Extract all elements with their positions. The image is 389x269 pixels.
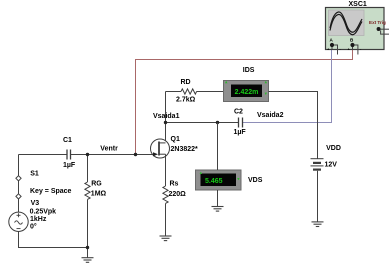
svg-text:S1: S1 (30, 171, 39, 178)
capacitor C1 (67, 150, 71, 160)
ammeter IDS (224, 81, 269, 102)
svg-text:5.465: 5.465 (205, 178, 223, 185)
svg-text:12V: 12V (325, 161, 338, 168)
svg-text:0°: 0° (30, 223, 37, 231)
svg-text:2.7kΩ: 2.7kΩ (176, 96, 196, 103)
svg-text:XSC1: XSC1 (349, 1, 367, 8)
voltmeter VDS (196, 170, 242, 190)
wire: Vsaida1 to VDS meter (217, 123, 219, 171)
svg-text:1MΩ: 1MΩ (91, 190, 107, 197)
svg-text:1µF: 1µF (63, 162, 76, 169)
ground (VDD) (312, 222, 324, 227)
resistor Rs (163, 186, 168, 203)
capacitor C2 (239, 118, 243, 128)
terminal B (348, 38, 363, 55)
terminal A (327, 38, 342, 55)
svg-text:VDS: VDS (248, 177, 263, 184)
wire: IDS to VDD (269, 92, 318, 159)
svg-text:2.422m: 2.422m (235, 89, 259, 96)
svg-text:C2: C2 (234, 109, 243, 116)
wire: source vertical (Q1 to Rs) (165, 154, 167, 236)
switch S1 (16, 176, 21, 199)
svg-text:Ventr: Ventr (100, 145, 118, 152)
junction: V3/RG bottom (86, 246, 89, 249)
oscilloscope XSC1 (326, 8, 385, 50)
junction: gate/red wire (134, 153, 137, 156)
svg-text:2N3822*: 2N3822* (171, 146, 199, 153)
wire blue: scope A to Vsaida2 (243, 49, 332, 123)
svg-text:RD: RD (181, 79, 191, 86)
svg-text:0.25Vpk: 0.25Vpk (30, 209, 57, 216)
wire red: scope B to gate net (136, 47, 353, 155)
terminal Ext Trig (377, 27, 389, 34)
resistor RG (85, 182, 90, 199)
svg-text:1µF: 1µF (234, 129, 247, 136)
svg-text:Vsaida1: Vsaida1 (153, 113, 180, 120)
svg-text:IDS: IDS (243, 67, 255, 74)
junction: Vsaida1/VDS meter (216, 121, 219, 124)
wire: left branch down through S1 and V3 (19, 155, 88, 248)
svg-text:Rs: Rs (170, 181, 179, 188)
svg-text:V3: V3 (31, 200, 40, 207)
svg-text:RG: RG (91, 180, 102, 187)
svg-text:Vsaida2: Vsaida2 (257, 112, 284, 119)
svg-text:Q1: Q1 (171, 136, 180, 143)
svg-text:220Ω: 220Ω (169, 191, 187, 198)
wire: gate net from source to C1 (19, 154, 68, 156)
ground (Rs) (160, 236, 172, 241)
wire: VDS meter to ground (217, 190, 219, 206)
svg-text:VDD: VDD (326, 145, 341, 152)
battery VDD (311, 159, 324, 170)
svg-text:Ext Trig: Ext Trig (369, 20, 386, 25)
wire: drain vertical (RD to Q1) (165, 92, 167, 142)
wire: RG branch vertical (87, 155, 89, 258)
ground (VDS) (212, 207, 224, 212)
svg-text:Key = Space: Key = Space (30, 188, 72, 195)
source V3 (9, 212, 28, 231)
wire: VDD to ground (317, 171, 319, 222)
junction: gate/RG (86, 153, 89, 156)
wire: C1 to JFET gate (71, 154, 158, 156)
transistor Q1 (JFET) (151, 139, 170, 158)
svg-text:1kHz: 1kHz (30, 216, 47, 223)
ground (V3/RG) (82, 258, 94, 263)
wire: Vsaida1 horizontal (166, 122, 239, 124)
resistor RD (166, 89, 224, 94)
junction: Vsaida1/drain (164, 121, 167, 124)
svg-text:C1: C1 (63, 137, 72, 144)
